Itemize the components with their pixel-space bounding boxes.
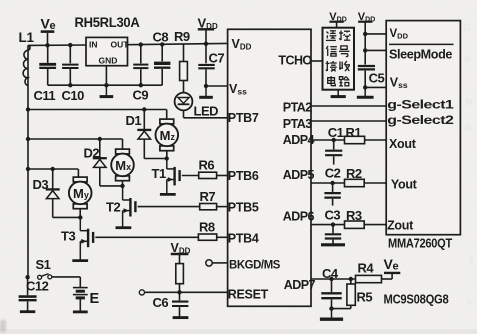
wire T1 gate (182, 175, 199, 177)
svg-text:R6: R6 (199, 158, 215, 173)
wire left rail (27, 45, 29, 277)
capacitor C10 (62, 45, 85, 103)
wire D1-Mz (144, 158, 166, 160)
node SleepMode (363, 48, 367, 52)
resistor R7 (200, 189, 217, 210)
svg-text:g-Select2: g-Select2 (387, 113, 454, 127)
svg-text:R4: R4 (358, 261, 375, 276)
ground regulator (105, 85, 107, 96)
node rail3 (26, 167, 30, 171)
accelerometer U3 MMA7260QT (386, 21, 460, 235)
node regulator gnd (104, 83, 108, 87)
svg-text:GND: GND (99, 56, 118, 66)
wire T3 gate (95, 236, 198, 238)
capacitor C7 (198, 44, 224, 86)
motor Mz (160, 119, 174, 124)
svg-text:M: M (466, 98, 473, 107)
power symbol VDD4 (358, 11, 375, 34)
node C9 tap (139, 42, 143, 46)
svg-text:SleepMode: SleepMode (389, 47, 452, 61)
svg-text:C5: C5 (369, 71, 385, 86)
battery E (73, 288, 100, 311)
resistor R1 (345, 125, 365, 144)
motor My (73, 177, 87, 182)
resistor R2 (345, 166, 365, 187)
wire D3-My (53, 216, 81, 218)
svg-text:Yout: Yout (391, 178, 418, 192)
ground C6 (173, 316, 189, 319)
svg-text:T1: T1 (152, 166, 166, 181)
node D2 branch (98, 137, 102, 141)
svg-text:C10: C10 (62, 88, 85, 103)
capacitor C5 (358, 50, 385, 87)
svg-text:PTB7: PTB7 (228, 111, 259, 125)
ground T3 (72, 259, 88, 262)
wire ADP6-Zout (311, 224, 345, 226)
svg-text:C12: C12 (26, 279, 49, 294)
ground E (73, 310, 88, 313)
ground remote (337, 90, 339, 97)
node Ve tap (45, 43, 49, 47)
svg-text:T3: T3 (61, 229, 75, 244)
resistor R9 (174, 29, 190, 93)
svg-text:C2: C2 (325, 166, 341, 181)
svg-text:6: 6 (465, 55, 470, 64)
resistor pullup (176, 264, 184, 284)
svg-text:R7: R7 (200, 189, 216, 204)
wire ADP5-Yout (311, 182, 345, 184)
capacitor C1 (325, 125, 344, 165)
svg-text:ADP5: ADP5 (283, 168, 315, 182)
svg-text:PTB6: PTB6 (228, 169, 259, 183)
svg-text:PTA2: PTA2 (283, 101, 312, 115)
svg-text:C3: C3 (325, 208, 341, 223)
wire S1-E (52, 276, 81, 278)
power symbol Ve (41, 16, 56, 46)
transistor T3 (61, 217, 93, 259)
wire rail2 (28, 138, 123, 140)
wire ADP4-Xout (311, 139, 345, 141)
svg-text:C7: C7 (209, 51, 225, 66)
svg-text:L1: L1 (19, 30, 35, 45)
wire D2-Mx (100, 185, 123, 187)
svg-text:Zout: Zout (387, 219, 414, 233)
svg-text:PTB5: PTB5 (228, 200, 259, 214)
ground C4 (331, 309, 333, 320)
wire g-Select2 (311, 120, 386, 122)
node D1 branch (142, 107, 146, 111)
svg-text:IN: IN (89, 40, 98, 50)
LED (175, 93, 219, 119)
wire PTB7 (183, 110, 185, 117)
terminal RESET (139, 290, 144, 295)
svg-text:e: e (393, 260, 399, 272)
ground C12 (20, 310, 35, 313)
node rail2 (26, 137, 30, 141)
node C4 gnd (329, 306, 333, 310)
wire g-Select1 (311, 105, 386, 107)
svg-text:C1: C1 (328, 125, 344, 140)
node R5 tap (349, 277, 353, 281)
svg-text:ADP4: ADP4 (283, 133, 315, 147)
node Mz bottom (165, 156, 169, 160)
pin SleepMode (389, 43, 454, 45)
svg-text:11: 11 (463, 23, 472, 32)
capacitor C9 (133, 45, 149, 103)
node C1 tap (332, 138, 336, 142)
node Mx bottom (120, 184, 124, 188)
resistor R6 (199, 158, 217, 179)
svg-text:8: 8 (467, 298, 472, 307)
node S1 junction (25, 275, 29, 279)
power symbol Ve2 (384, 256, 401, 279)
svg-text:E: E (90, 291, 100, 307)
node Vss junction (204, 84, 208, 88)
terminal BKGD (206, 260, 212, 266)
svg-text:C4: C4 (322, 266, 339, 281)
svg-text:4L: 4L (464, 123, 473, 132)
svg-text:MMA7260QT: MMA7260QT (388, 236, 453, 250)
node rail1 (26, 107, 30, 111)
ground C3 (321, 243, 345, 246)
wire Vss (206, 85, 228, 87)
wire accel VDD (365, 33, 386, 35)
wire PTB5 (217, 206, 228, 208)
svg-text:LED: LED (194, 104, 219, 119)
svg-text:T2: T2 (106, 200, 120, 215)
MCU U1 MC9S08QG8 (228, 29, 311, 306)
wire accel Vss (365, 86, 386, 88)
svg-text:e: e (50, 20, 56, 32)
switch S1 (36, 257, 52, 279)
svg-text:Xout: Xout (389, 137, 417, 151)
resistor R5 (347, 279, 372, 309)
svg-text:1: 1 (469, 255, 474, 264)
resistor R8 (198, 220, 216, 241)
svg-text:TCHO: TCHO (278, 54, 312, 68)
svg-text:RESET: RESET (228, 288, 269, 302)
wire caps ground rail (48, 84, 163, 86)
svg-text:C8: C8 (153, 30, 169, 45)
ground C5 (364, 87, 366, 97)
power symbol VDD1 (198, 16, 218, 44)
svg-text:S1: S1 (36, 257, 51, 272)
svg-text:PTB4: PTB4 (228, 232, 259, 246)
capacitor C3 (325, 208, 342, 244)
wire ADP7 (311, 278, 356, 280)
svg-text:OUT: OUT (111, 40, 130, 50)
node C3 tap (331, 222, 335, 226)
wire T2 gate (138, 206, 200, 208)
capacitor C2 (324, 166, 340, 206)
node C2 tap (330, 181, 334, 185)
wire C4-R5 gnd (332, 308, 351, 310)
capacitor C6 (153, 292, 189, 316)
remote receiver box (323, 28, 355, 90)
transistor T1 (152, 159, 180, 194)
ground T1 (160, 193, 176, 196)
capacitor C8 (153, 30, 171, 86)
capacitor C11 (34, 45, 57, 103)
svg-text:C11: C11 (34, 88, 56, 103)
svg-text:ADP7: ADP7 (284, 278, 316, 292)
node C8 tap (160, 42, 164, 46)
svg-text:D1: D1 (126, 113, 142, 128)
svg-text:R9: R9 (174, 29, 190, 44)
svg-text:BKGD/MS: BKGD/MS (229, 257, 280, 271)
regulator U2 RH5RL30A (75, 15, 141, 85)
node C7 tap (204, 42, 208, 46)
wire top rail right (128, 43, 228, 44)
node C5 gnd (363, 85, 367, 89)
diode D1 (126, 110, 152, 159)
motor Mx (116, 149, 130, 154)
power symbol VDD2 (171, 241, 191, 264)
power symbol VDD3 (329, 11, 346, 28)
svg-text:C9: C9 (133, 88, 149, 103)
node C4 tap (329, 277, 333, 281)
node RESET pullup (177, 290, 181, 294)
wire PTB6 (217, 175, 228, 177)
wire SleepMode (364, 34, 366, 51)
wire PTB4 (217, 236, 228, 238)
wire rail1 (28, 109, 167, 111)
svg-text:g-Select1: g-Select1 (387, 98, 454, 112)
capacitor C4 (321, 266, 341, 309)
wire top rail left (28, 44, 86, 46)
node C10 bottom (68, 83, 72, 87)
svg-text:RH5RL30A: RH5RL30A (75, 15, 141, 30)
svg-text:PTA3: PTA3 (283, 117, 312, 131)
node My bottom (78, 215, 82, 219)
svg-text:MC9S08QG8: MC9S08QG8 (384, 291, 449, 306)
wire rail3 (28, 168, 78, 170)
ground T2 (116, 226, 132, 229)
resistor R4 (356, 261, 382, 283)
svg-text:ADP6: ADP6 (283, 209, 315, 223)
diode D3 (33, 169, 60, 217)
node C10 tap (68, 43, 72, 47)
wire TCHO (311, 60, 323, 62)
label remote receiver text (326, 30, 351, 86)
diode D2 (84, 139, 107, 186)
node D3 branch (51, 167, 55, 171)
resistor R3 (345, 208, 365, 228)
svg-text:R8: R8 (199, 220, 215, 235)
inductor L1 (19, 30, 35, 86)
transistor T2 (106, 186, 135, 227)
capacitor C12 (19, 277, 49, 311)
node accel VDD (363, 32, 367, 36)
svg-text:C6: C6 (153, 295, 169, 310)
svg-text:R5: R5 (357, 290, 373, 305)
wire RESET (145, 291, 228, 293)
ground C7 (205, 86, 207, 97)
